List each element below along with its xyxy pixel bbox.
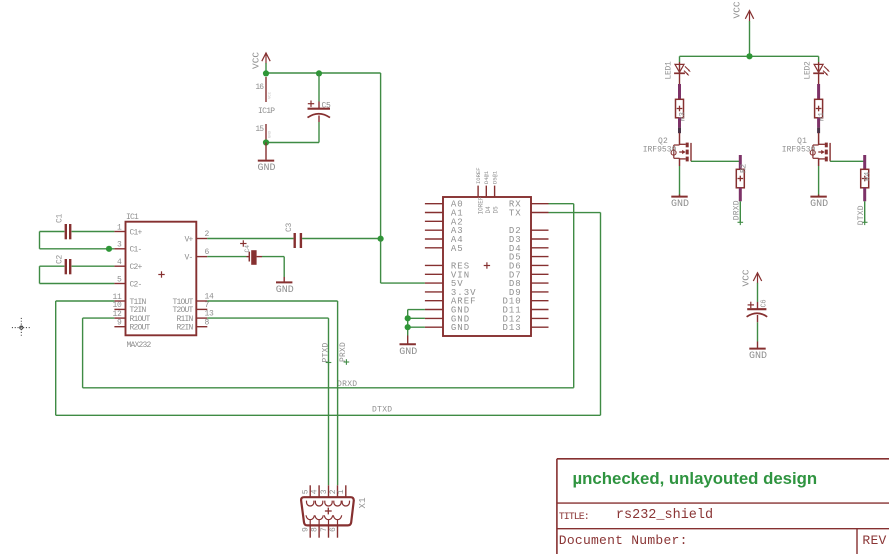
svg-text:TITLE:: TITLE:	[559, 512, 589, 523]
wire pin R2 top thick	[739, 155, 742, 169]
pin A4 Arduino left	[425, 235, 464, 245]
wire Q1 source to ground	[818, 166, 820, 196]
label PRXD	[339, 342, 349, 365]
pin D4@1 Arduino top	[483, 170, 492, 213]
junction GND pin13	[405, 315, 411, 321]
svg-text:9: 9	[117, 319, 122, 328]
junction VCC-IC1P	[263, 70, 269, 76]
junction V+ node	[378, 236, 384, 242]
junction pin3 node	[106, 246, 112, 252]
svg-text:GND: GND	[451, 323, 470, 333]
ground GND at C4	[276, 277, 294, 296]
pin D6 Arduino right	[509, 261, 549, 271]
svg-text:10: 10	[112, 301, 122, 310]
svg-text:DTXD: DTXD	[372, 406, 392, 415]
connector X1 body	[301, 497, 368, 525]
svg-text:IC1P: IC1P	[258, 107, 275, 116]
svg-text:V+: V+	[184, 235, 193, 244]
label DRXD vertical	[733, 200, 742, 220]
pin D11 Arduino right	[502, 306, 548, 316]
pin 5V Arduino left	[425, 279, 464, 289]
ground GND at Arduino	[399, 336, 417, 358]
svg-text:GND: GND	[671, 199, 689, 210]
svg-text:3: 3	[320, 489, 329, 494]
resistor R2	[736, 163, 748, 187]
svg-text:TX: TX	[509, 209, 522, 219]
pin D3 Arduino right	[509, 235, 549, 245]
svg-text:GND: GND	[399, 347, 417, 358]
label PTXD	[321, 342, 331, 365]
pin 6 X1 bottom	[329, 515, 342, 537]
wire pin R4 top thick	[863, 155, 866, 169]
svg-text:LED1: LED1	[665, 61, 674, 80]
svg-text:A5: A5	[451, 244, 464, 254]
pin 1 C1+ IC1	[114, 223, 142, 237]
pin D4 Arduino right	[509, 244, 549, 254]
pin 7 X1 bottom	[320, 515, 333, 537]
supply VCC right top	[732, 1, 754, 21]
text unchecked unlayouted design	[573, 469, 818, 488]
wire C2 to pin4	[72, 265, 115, 267]
svg-text:PRXD: PRXD	[339, 342, 348, 362]
svg-text:R2OUT: R2OUT	[130, 324, 151, 333]
pin 8 X1 bottom	[311, 515, 324, 537]
svg-text:µnchecked, unlayouted design: µnchecked, unlayouted design	[573, 469, 818, 488]
svg-text:7: 7	[320, 527, 329, 532]
pin 3.3V Arduino left	[425, 288, 477, 298]
wire pin LED2-R1 thick	[818, 73, 820, 99]
wire C1 to pin1	[72, 231, 115, 233]
pin 13 R1IN IC1	[176, 310, 214, 324]
transistor Q2 IRF9530	[643, 133, 691, 166]
pin IOREF Arduino top	[475, 167, 485, 214]
svg-text:VCC: VCC	[741, 269, 752, 286]
svg-text:R2: R2	[739, 163, 748, 173]
resistor R1	[815, 99, 827, 121]
svg-text:REV:: REV:	[862, 533, 889, 548]
svg-text:IRF9530: IRF9530	[782, 146, 816, 155]
svg-text:IOREF: IOREF	[475, 167, 482, 184]
svg-text:DTXD: DTXD	[857, 205, 866, 225]
svg-text:GND: GND	[269, 130, 273, 138]
svg-text:IRF9530: IRF9530	[643, 146, 677, 155]
wire Q2 source to ground	[679, 166, 681, 196]
svg-text:6: 6	[205, 248, 210, 257]
label DTXD horizontal	[372, 406, 392, 415]
pin GND Arduino left	[425, 314, 470, 324]
wire V- to C4	[207, 256, 246, 258]
svg-text:16: 16	[255, 83, 264, 92]
text REV	[862, 533, 889, 548]
wire pin R1-Q1 thick	[817, 118, 820, 133]
pin A0 Arduino left	[425, 200, 464, 210]
svg-text:D13: D13	[502, 323, 521, 333]
svg-text:C2+: C2+	[130, 263, 143, 272]
svg-text:T2OUT: T2OUT	[172, 306, 193, 315]
svg-text:GND: GND	[276, 285, 294, 296]
capacitor C4	[240, 240, 262, 264]
svg-text:LED2: LED2	[804, 61, 813, 80]
svg-text:8: 8	[311, 527, 320, 532]
power pin IC1P pin 15	[255, 124, 272, 141]
pin D10 Arduino right	[502, 297, 548, 307]
pin 2 X1 top	[329, 485, 341, 506]
wire net DRXD tail	[738, 201, 744, 225]
sheet origin crosshair	[12, 318, 30, 337]
pin D7 Arduino right	[509, 270, 549, 280]
wire net PTXD from R1IN	[207, 318, 328, 485]
wire pin R3-Q2 thick	[678, 118, 681, 133]
pin 14 T1OUT IC1	[172, 293, 214, 307]
pin 9 X1 bottom	[302, 515, 315, 537]
svg-text:15: 15	[255, 125, 264, 134]
pin 4 X1 top	[311, 485, 323, 506]
svg-text:T2IN: T2IN	[130, 306, 147, 315]
op-amp IC1 MAX232 body	[126, 213, 197, 350]
wire net TX	[549, 213, 601, 416]
svg-text:DRXD: DRXD	[337, 380, 357, 389]
wire VCC rail left	[266, 63, 381, 239]
svg-text:X1: X1	[358, 497, 368, 508]
svg-text:C1-: C1-	[130, 246, 142, 255]
wire Q2 gate to R2	[691, 160, 740, 162]
wire VCC rail right	[680, 21, 819, 56]
wire C6 to ground	[757, 322, 759, 341]
wire V+ to C3	[207, 238, 293, 240]
pin 5 C2- IC1	[114, 275, 141, 289]
svg-text:GND: GND	[810, 199, 828, 210]
svg-text:rs232_shield: rs232_shield	[616, 508, 713, 523]
svg-text:1: 1	[117, 223, 122, 232]
svg-text:VCC: VCC	[269, 91, 273, 99]
pin 1 X1 top	[337, 485, 349, 506]
power pin IC1P pin 16	[255, 77, 272, 102]
resistor R4	[861, 169, 873, 188]
pin VIN Arduino left	[425, 270, 470, 280]
svg-text:D5@1: D5@1	[492, 170, 499, 184]
svg-text:1: 1	[337, 489, 346, 494]
pin GND Arduino left	[425, 306, 470, 316]
wire Arduino GND bus	[408, 310, 425, 336]
text TITLE rs232_shield	[559, 508, 713, 523]
pin 12 R1OUT IC1	[112, 310, 150, 324]
label DTXD vertical	[857, 205, 866, 225]
svg-text:IOREF: IOREF	[478, 196, 485, 214]
wire pin R4 bottom thick	[863, 188, 866, 202]
pin 6 V- IC1	[184, 248, 209, 262]
wire pin R2 bottom thick	[739, 188, 742, 202]
pin 10 T2IN IC1	[112, 301, 146, 315]
pin GND Arduino left	[425, 323, 470, 333]
svg-text:D4: D4	[485, 206, 492, 214]
svg-text:7: 7	[205, 301, 210, 310]
ground GND at C6	[749, 342, 767, 363]
svg-text:5: 5	[302, 489, 311, 494]
pin A3 Arduino left	[425, 226, 464, 236]
junction GND pin14	[405, 324, 411, 330]
pin 3 X1 top	[320, 485, 332, 506]
ground GND at Q1	[810, 195, 828, 211]
capacitor C5	[308, 73, 332, 122]
pin 9 R2OUT IC1	[114, 319, 150, 333]
junction VCC rail	[746, 53, 752, 59]
wire net DRXD from R1OUT	[83, 318, 574, 388]
svg-text:6: 6	[329, 527, 338, 532]
svg-text:VCC: VCC	[251, 52, 262, 69]
svg-text:Document Number:: Document Number:	[559, 533, 688, 548]
pin D8 Arduino right	[509, 279, 549, 289]
pin 11 T1IN IC1	[112, 293, 146, 307]
junction VCC-C5	[316, 70, 322, 76]
svg-text:8: 8	[205, 318, 210, 327]
svg-text:VCC: VCC	[732, 1, 743, 18]
LED LED2	[804, 56, 830, 79]
pin A5 Arduino left	[425, 244, 464, 254]
svg-text:IC1: IC1	[126, 213, 139, 222]
pin 2 V+ IC1	[184, 230, 209, 244]
power part IC1P label	[258, 107, 275, 116]
svg-text:C5: C5	[322, 102, 332, 111]
pin TX Arduino right	[509, 209, 549, 219]
resistor R3	[676, 99, 688, 121]
wire net RX	[549, 204, 574, 388]
capacitor C3	[285, 222, 301, 248]
label DRXD horizontal	[337, 380, 357, 389]
pin A1 Arduino left	[425, 209, 464, 219]
wire VCC to C6	[757, 283, 759, 302]
svg-text:GND: GND	[749, 351, 767, 362]
title block frame	[557, 459, 889, 554]
svg-text:D5: D5	[493, 206, 500, 214]
svg-text:2: 2	[205, 230, 210, 239]
wire net DTXD tail	[862, 201, 868, 225]
wire net PRXD from T1OUT	[207, 301, 337, 485]
svg-text:GND: GND	[257, 163, 275, 174]
supply VCC middle right	[741, 269, 762, 286]
svg-text:9: 9	[302, 527, 311, 532]
pin D9 Arduino right	[509, 288, 549, 298]
capacitor C2	[56, 254, 71, 274]
wire IC1P-GND-C5	[266, 122, 319, 143]
pin A2 Arduino left	[425, 217, 464, 227]
svg-text:4: 4	[117, 258, 122, 267]
pin AREF Arduino left	[425, 297, 477, 307]
svg-text:5: 5	[117, 275, 122, 284]
svg-text:C4: C4	[244, 245, 251, 253]
svg-text:V-: V-	[184, 253, 192, 262]
wire C4 to ground	[262, 257, 284, 278]
svg-text:C3: C3	[285, 222, 294, 232]
svg-text:C6: C6	[761, 300, 769, 308]
wire net C2 left loop pin5	[40, 266, 115, 283]
junction GND node left	[263, 139, 269, 145]
pin 5 X1 top	[302, 485, 314, 506]
svg-text:R2IN: R2IN	[176, 324, 193, 333]
pin 3 C1- IC1	[114, 241, 141, 255]
svg-text:C2: C2	[56, 254, 65, 264]
svg-text:MAX232: MAX232	[127, 341, 152, 350]
pin D13 Arduino right	[502, 323, 548, 333]
wire node to 5V pin	[381, 239, 425, 284]
pin D5 Arduino right	[509, 253, 549, 263]
svg-text:C1: C1	[56, 213, 65, 223]
pin D12 Arduino right	[502, 314, 548, 324]
wire C3 to 5V node	[302, 238, 381, 240]
svg-text:C1+: C1+	[130, 228, 143, 237]
svg-text:PTXD: PTXD	[321, 342, 330, 362]
svg-text:4: 4	[311, 489, 320, 494]
svg-text:C2-: C2-	[130, 280, 142, 289]
pin 4 C2+ IC1	[114, 258, 142, 272]
pin RX Arduino right	[509, 200, 549, 210]
text Document Number	[559, 533, 688, 548]
pin D2 Arduino right	[509, 226, 549, 236]
LED LED1	[665, 56, 691, 79]
pin RES Arduino left	[425, 261, 470, 271]
pin 7 T2OUT IC1	[172, 301, 209, 315]
capacitor C1	[56, 213, 71, 239]
svg-text:D4@1: D4@1	[483, 170, 490, 184]
supply VCC left	[251, 52, 271, 69]
capacitor C6	[747, 300, 769, 323]
svg-text:R4: R4	[864, 171, 873, 181]
wire net C1 left loop pin3	[40, 232, 115, 249]
pin D5@1 Arduino top	[492, 170, 500, 213]
pin 8 R2IN IC1	[176, 318, 209, 332]
svg-text:DRXD: DRXD	[733, 200, 742, 220]
transistor Q1 IRF9530	[782, 133, 830, 166]
ground GND at Q2	[671, 195, 689, 211]
ground GND under IC1P	[257, 143, 275, 175]
wire Q1 gate to R4	[830, 160, 865, 162]
connector Arduino body	[443, 197, 531, 336]
wire pin LED1-R3 thick	[679, 73, 681, 99]
svg-text:3: 3	[117, 241, 122, 250]
wire net DTXD from T1IN	[56, 301, 601, 415]
